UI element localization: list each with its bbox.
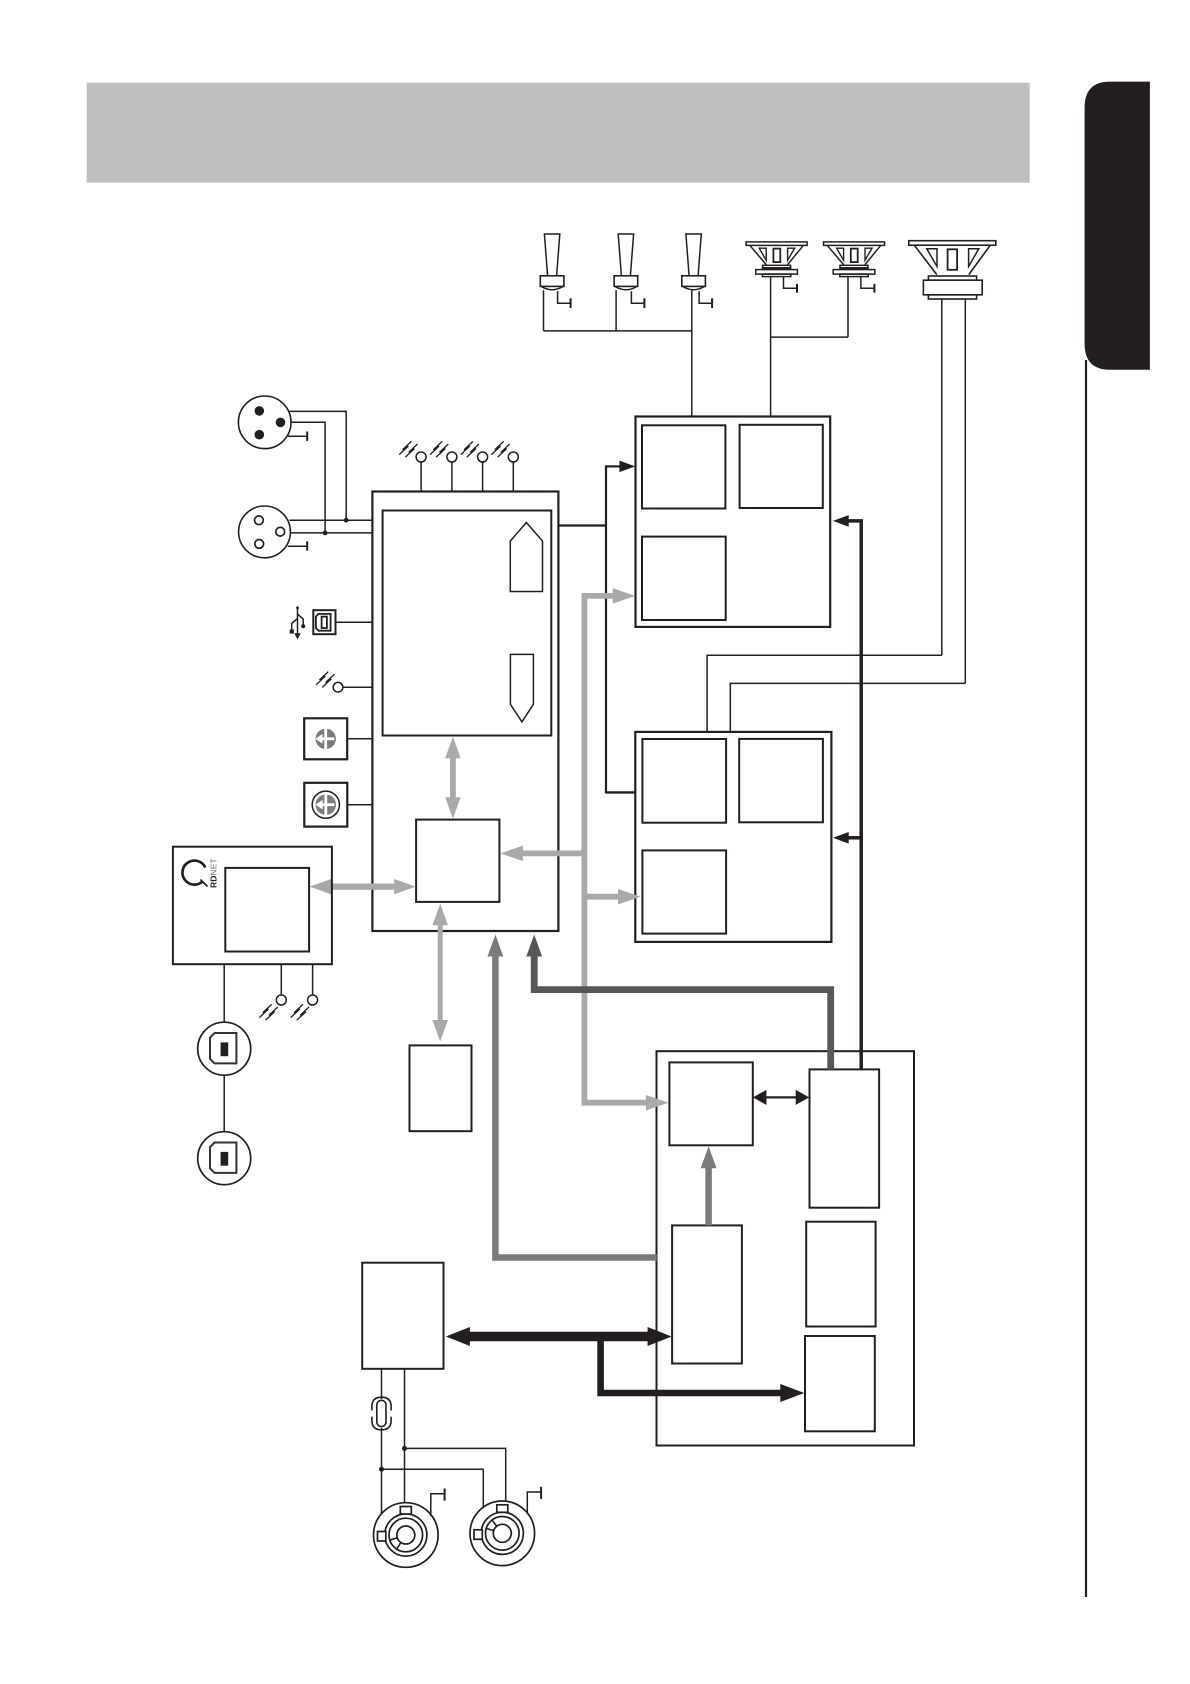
svg-text:RDNET: RDNET (209, 858, 219, 888)
